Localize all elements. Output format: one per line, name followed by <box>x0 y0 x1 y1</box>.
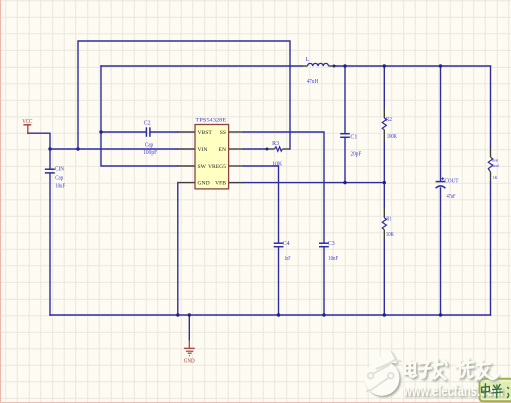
svg-text:C3: C3 <box>328 241 335 247</box>
svg-text:C1: C1 <box>350 134 357 140</box>
svg-text:GND: GND <box>184 359 196 365</box>
svg-text:R1: R1 <box>386 217 391 223</box>
svg-text:100K: 100K <box>387 134 397 140</box>
svg-text:COUT: COUT <box>445 178 459 184</box>
svg-text:R3: R3 <box>272 141 279 147</box>
svg-text:1nF: 1nF <box>285 256 291 262</box>
svg-text:C2: C2 <box>144 121 151 127</box>
svg-text:10nF: 10nF <box>328 256 339 262</box>
svg-text:10K: 10K <box>272 162 283 168</box>
svg-text:100pF: 100pF <box>143 150 158 156</box>
svg-text:Cap: Cap <box>145 143 154 149</box>
svg-text:47uH: 47uH <box>307 79 319 85</box>
svg-text:TPS54328E: TPS54328E <box>195 118 227 124</box>
svg-text:10uF: 10uF <box>55 184 66 190</box>
svg-text:Cap: Cap <box>55 176 63 182</box>
svg-text:L: L <box>306 57 310 63</box>
svg-text:VREG5: VREG5 <box>208 164 226 170</box>
svg-text:47uF: 47uF <box>447 194 456 200</box>
svg-text:EN: EN <box>219 147 226 153</box>
svg-text:CIN: CIN <box>55 167 65 173</box>
svg-text:VBST: VBST <box>198 130 213 136</box>
svg-text:20pF: 20pF <box>350 152 362 158</box>
svg-text:Raux1: Raux1 <box>492 163 500 168</box>
svg-text:SW: SW <box>198 164 207 170</box>
svg-text:10K: 10K <box>386 232 395 238</box>
svg-text:1K: 1K <box>493 175 499 180</box>
svg-text:GND: GND <box>198 181 210 187</box>
svg-text:C4: C4 <box>283 241 290 247</box>
svg-text:VCC: VCC <box>22 119 32 125</box>
svg-text:Rout: Rout <box>492 158 499 163</box>
svg-text:VIN: VIN <box>198 147 208 153</box>
svg-text:SS: SS <box>220 130 226 136</box>
svg-text:VFB: VFB <box>215 181 226 187</box>
svg-text:R2: R2 <box>386 117 392 123</box>
